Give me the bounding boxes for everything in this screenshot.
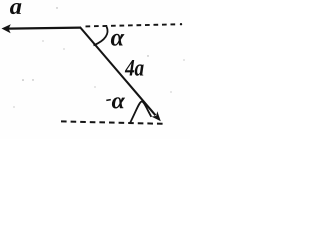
label alpha top <box>111 34 125 46</box>
label a <box>10 3 21 14</box>
vector 4a: diagonal line with arrowhead at lower right <box>80 28 161 122</box>
label alpha bottom <box>112 97 125 108</box>
top dashed reference line <box>86 24 179 26</box>
small tick before bottom alpha <box>106 99 111 102</box>
top angle arc <box>94 27 108 46</box>
bottom angle arc <box>130 101 151 122</box>
bottom dashed reference line <box>61 121 163 123</box>
label 4a <box>125 60 144 76</box>
vector a: horizontal line with left arrowhead <box>2 24 82 33</box>
